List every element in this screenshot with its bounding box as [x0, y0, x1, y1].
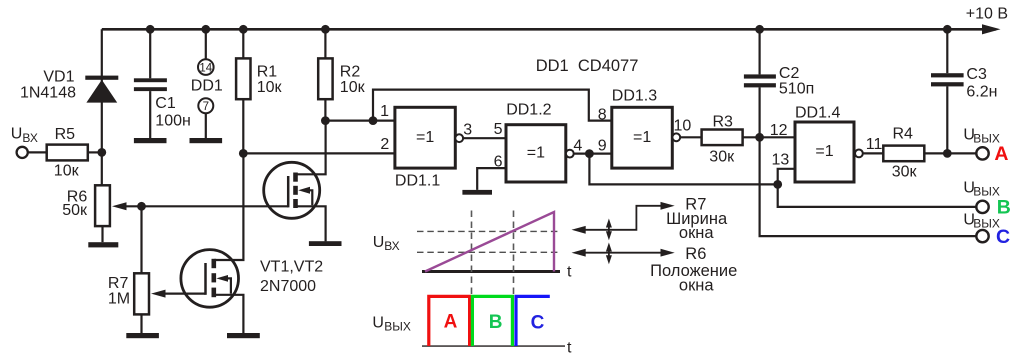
annotation pointer R7 (window width)	[572, 202, 675, 234]
svg-text:4: 4	[573, 138, 582, 155]
ground (VT2 source)	[227, 333, 260, 338]
graph: ramp waveform (purple)	[425, 212, 554, 272]
annotation text R6 Положение окна	[650, 245, 737, 295]
svg-text:50к: 50к	[62, 202, 88, 219]
svg-text:DD1.2: DD1.2	[506, 102, 551, 119]
graph: dashed threshold line lower	[417, 251, 561, 253]
node: VD1/R5/R6 junction	[97, 148, 106, 157]
node: R3 / C2 / pin 12 / C output net	[755, 133, 764, 142]
output terminal A	[976, 147, 988, 159]
svg-text:R4: R4	[893, 125, 914, 142]
annotation double arrow lower	[606, 243, 612, 265]
node: rail / C2	[755, 25, 764, 34]
resistor R1	[236, 29, 250, 153]
graph label Uвых	[372, 314, 410, 333]
svg-text:A: A	[444, 311, 458, 332]
annotation text R7 Ширина окна	[666, 196, 728, 243]
label C2 510п	[779, 65, 814, 98]
svg-text:510п: 510п	[779, 81, 814, 98]
output terminal C	[976, 230, 988, 242]
node: rail / R2	[321, 25, 330, 34]
graph: dashed threshold line upper	[417, 230, 561, 232]
label R7 1M	[108, 275, 130, 307]
node: pin 13 / B output	[773, 180, 782, 189]
DD1 power pin 7	[198, 98, 213, 138]
ground (R7)	[126, 333, 159, 338]
svg-text:DD1.4: DD1.4	[795, 105, 840, 122]
resistor R3	[702, 130, 760, 146]
wire: DD1.2 pin 6 to ground	[477, 168, 506, 190]
capacitor C2	[744, 29, 776, 137]
node: R6 wiper / R7 branch	[137, 202, 146, 211]
svg-text:U: U	[373, 234, 385, 251]
+10 V power rail	[102, 24, 1001, 34]
svg-text:C: C	[531, 313, 545, 334]
svg-text:10: 10	[674, 118, 692, 135]
node: rail / R1	[239, 25, 248, 34]
graph label Uвх	[373, 234, 400, 253]
label Uвых (A)	[963, 127, 1000, 146]
label R4 30к	[892, 125, 918, 180]
wire: node down to R7	[140, 206, 142, 273]
potentiometer R6	[95, 152, 126, 242]
resistor R2	[318, 29, 332, 120]
svg-text:6.2н: 6.2н	[966, 84, 997, 101]
svg-text:10к: 10к	[257, 79, 283, 96]
resistor R5	[47, 145, 102, 161]
svg-text:8: 8	[598, 106, 607, 123]
svg-text:10к: 10к	[54, 163, 80, 180]
wire: R6 wiper to VT1 gate	[125, 205, 289, 207]
svg-text:C3: C3	[966, 66, 987, 83]
svg-text:t: t	[567, 264, 572, 281]
label R6 50к	[62, 189, 88, 220]
graph: dashed vertical line 1	[471, 211, 473, 296]
svg-text:DD1.1: DD1.1	[395, 173, 440, 190]
svg-text:U: U	[11, 126, 23, 143]
node: R2 bottom / pin 1 / VT1 drain	[321, 116, 330, 125]
diode VD1	[85, 76, 118, 103]
label R1 10к	[257, 64, 283, 96]
XOR gate DD1.1	[395, 107, 463, 168]
XOR gate DD1.3	[612, 107, 680, 168]
svg-text:1M: 1M	[108, 290, 130, 307]
graph: pulse C (blue)	[516, 296, 550, 346]
svg-text:10к: 10к	[340, 79, 366, 96]
svg-text:2: 2	[380, 136, 389, 153]
capacitor C1	[134, 29, 167, 138]
node: R4 / C3 / A output	[943, 149, 952, 158]
svg-text:=1: =1	[815, 143, 833, 160]
label Uвх (input)	[11, 126, 38, 145]
wire: pin 12	[760, 136, 795, 138]
wire: DD1.4 out to R4	[863, 152, 884, 154]
graph: pulse A (red)	[429, 296, 470, 346]
label R5 10к	[54, 126, 80, 179]
svg-text:=1: =1	[527, 145, 545, 162]
transistor VT1	[264, 121, 326, 242]
wire: DD1.1 out to DD1.2 pin 5	[463, 137, 506, 139]
svg-text:R5: R5	[55, 126, 76, 143]
graph: upper time axis	[422, 264, 572, 281]
wire: pin 1 row	[325, 119, 395, 121]
node: pin 1 / top link	[369, 116, 378, 125]
svg-text:=1: =1	[633, 129, 651, 146]
graph: dashed vertical line 2	[513, 211, 515, 296]
transistor VT2	[181, 153, 244, 333]
label C1 100н	[155, 95, 191, 130]
svg-text:11: 11	[866, 136, 883, 153]
svg-text:ВХ: ВХ	[22, 131, 37, 145]
wire: DD1.3 out to R3	[680, 136, 701, 138]
wire: left branch of rail down to diode	[101, 29, 103, 152]
svg-text:1: 1	[380, 103, 389, 120]
graph: pulse B (green)	[472, 296, 512, 346]
svg-text:2N7000: 2N7000	[260, 278, 316, 295]
svg-text:C2: C2	[779, 65, 800, 82]
node: R1 / pin 2 / VT2 drain	[239, 149, 248, 158]
svg-text:9: 9	[598, 138, 607, 155]
svg-text:VD1: VD1	[43, 69, 74, 86]
svg-text:окна: окна	[679, 276, 715, 294]
svg-text:30к: 30к	[892, 164, 918, 181]
ground (C1)	[134, 138, 167, 143]
svg-text:12: 12	[770, 122, 788, 139]
ground (R6)	[88, 242, 118, 247]
wire: C net to output C	[760, 137, 977, 236]
svg-text:30к: 30к	[709, 148, 735, 165]
svg-text:t: t	[567, 340, 572, 357]
ground (DD1 pin 7)	[190, 138, 223, 143]
label VD1 1N4148	[20, 69, 76, 102]
node: rail / DD1 pin 14	[201, 25, 210, 34]
svg-text:ВХ: ВХ	[384, 239, 399, 253]
potentiometer R7	[134, 273, 165, 333]
graph: lower time axis	[422, 340, 572, 357]
svg-text:B: B	[997, 197, 1011, 219]
svg-text:R3: R3	[713, 113, 734, 130]
annotation pointer R6 (window position)	[572, 249, 675, 257]
svg-text:C: C	[996, 226, 1010, 248]
svg-text:B: B	[489, 312, 503, 333]
svg-text:U: U	[372, 314, 384, 331]
svg-text:ВЫХ: ВЫХ	[384, 319, 411, 333]
capacitor C3	[931, 29, 964, 153]
svg-text:7: 7	[203, 101, 209, 113]
XOR gate DD1.2	[506, 125, 574, 182]
svg-text:DD1 CD4077: DD1 CD4077	[536, 57, 639, 75]
label R3 30к	[709, 113, 735, 165]
wire: DD1.2 out to DD1.3 pin 9	[574, 153, 612, 155]
annotation double arrow upper	[606, 219, 612, 241]
node: rail / C3	[943, 25, 952, 34]
wire: R7 wiper to VT2 gate	[164, 293, 206, 295]
output terminal B	[976, 201, 988, 213]
svg-text:VT1,VT2: VT1,VT2	[260, 258, 323, 275]
svg-text:A: A	[994, 143, 1008, 165]
label Uвых (B)	[963, 180, 1000, 199]
svg-text:100н: 100н	[155, 113, 191, 130]
label R2 10к	[340, 64, 366, 96]
svg-text:14: 14	[199, 62, 212, 74]
input terminal Uвх	[17, 147, 47, 158]
wire: pin 2 row	[243, 152, 395, 154]
svg-text:DD1.3: DD1.3	[612, 88, 657, 105]
ground (DD1.2 pin 6)	[462, 190, 492, 195]
node: DD1.2 out / pin 9 / pin 13 link	[585, 149, 594, 158]
svg-text:DD1: DD1	[191, 78, 223, 95]
svg-text:+10 В: +10 В	[966, 5, 1008, 22]
XOR gate DD1.4	[795, 122, 863, 182]
wire: pin 13 link to B output	[778, 169, 977, 207]
label VT1,VT2 2N7000	[260, 258, 323, 295]
svg-text:13: 13	[772, 152, 790, 169]
node: rail / C1	[146, 25, 155, 34]
resistor R4	[883, 146, 976, 162]
svg-text:3: 3	[463, 122, 472, 139]
wire: pin 13 link to DD1.2 output	[589, 154, 777, 185]
wire: top link pin1 to pin8	[373, 90, 612, 121]
svg-text:5: 5	[494, 121, 503, 138]
svg-text:1N4148: 1N4148	[20, 85, 76, 102]
DD1 power pin 14	[198, 29, 214, 75]
svg-text:окна: окна	[679, 224, 715, 242]
svg-text:=1: =1	[416, 129, 434, 146]
svg-text:R6: R6	[685, 245, 706, 263]
label C3 6.2н	[966, 66, 997, 101]
ground (VT1 source)	[309, 241, 342, 246]
svg-text:C1: C1	[155, 95, 176, 112]
label Uвых (C)	[963, 211, 1000, 230]
